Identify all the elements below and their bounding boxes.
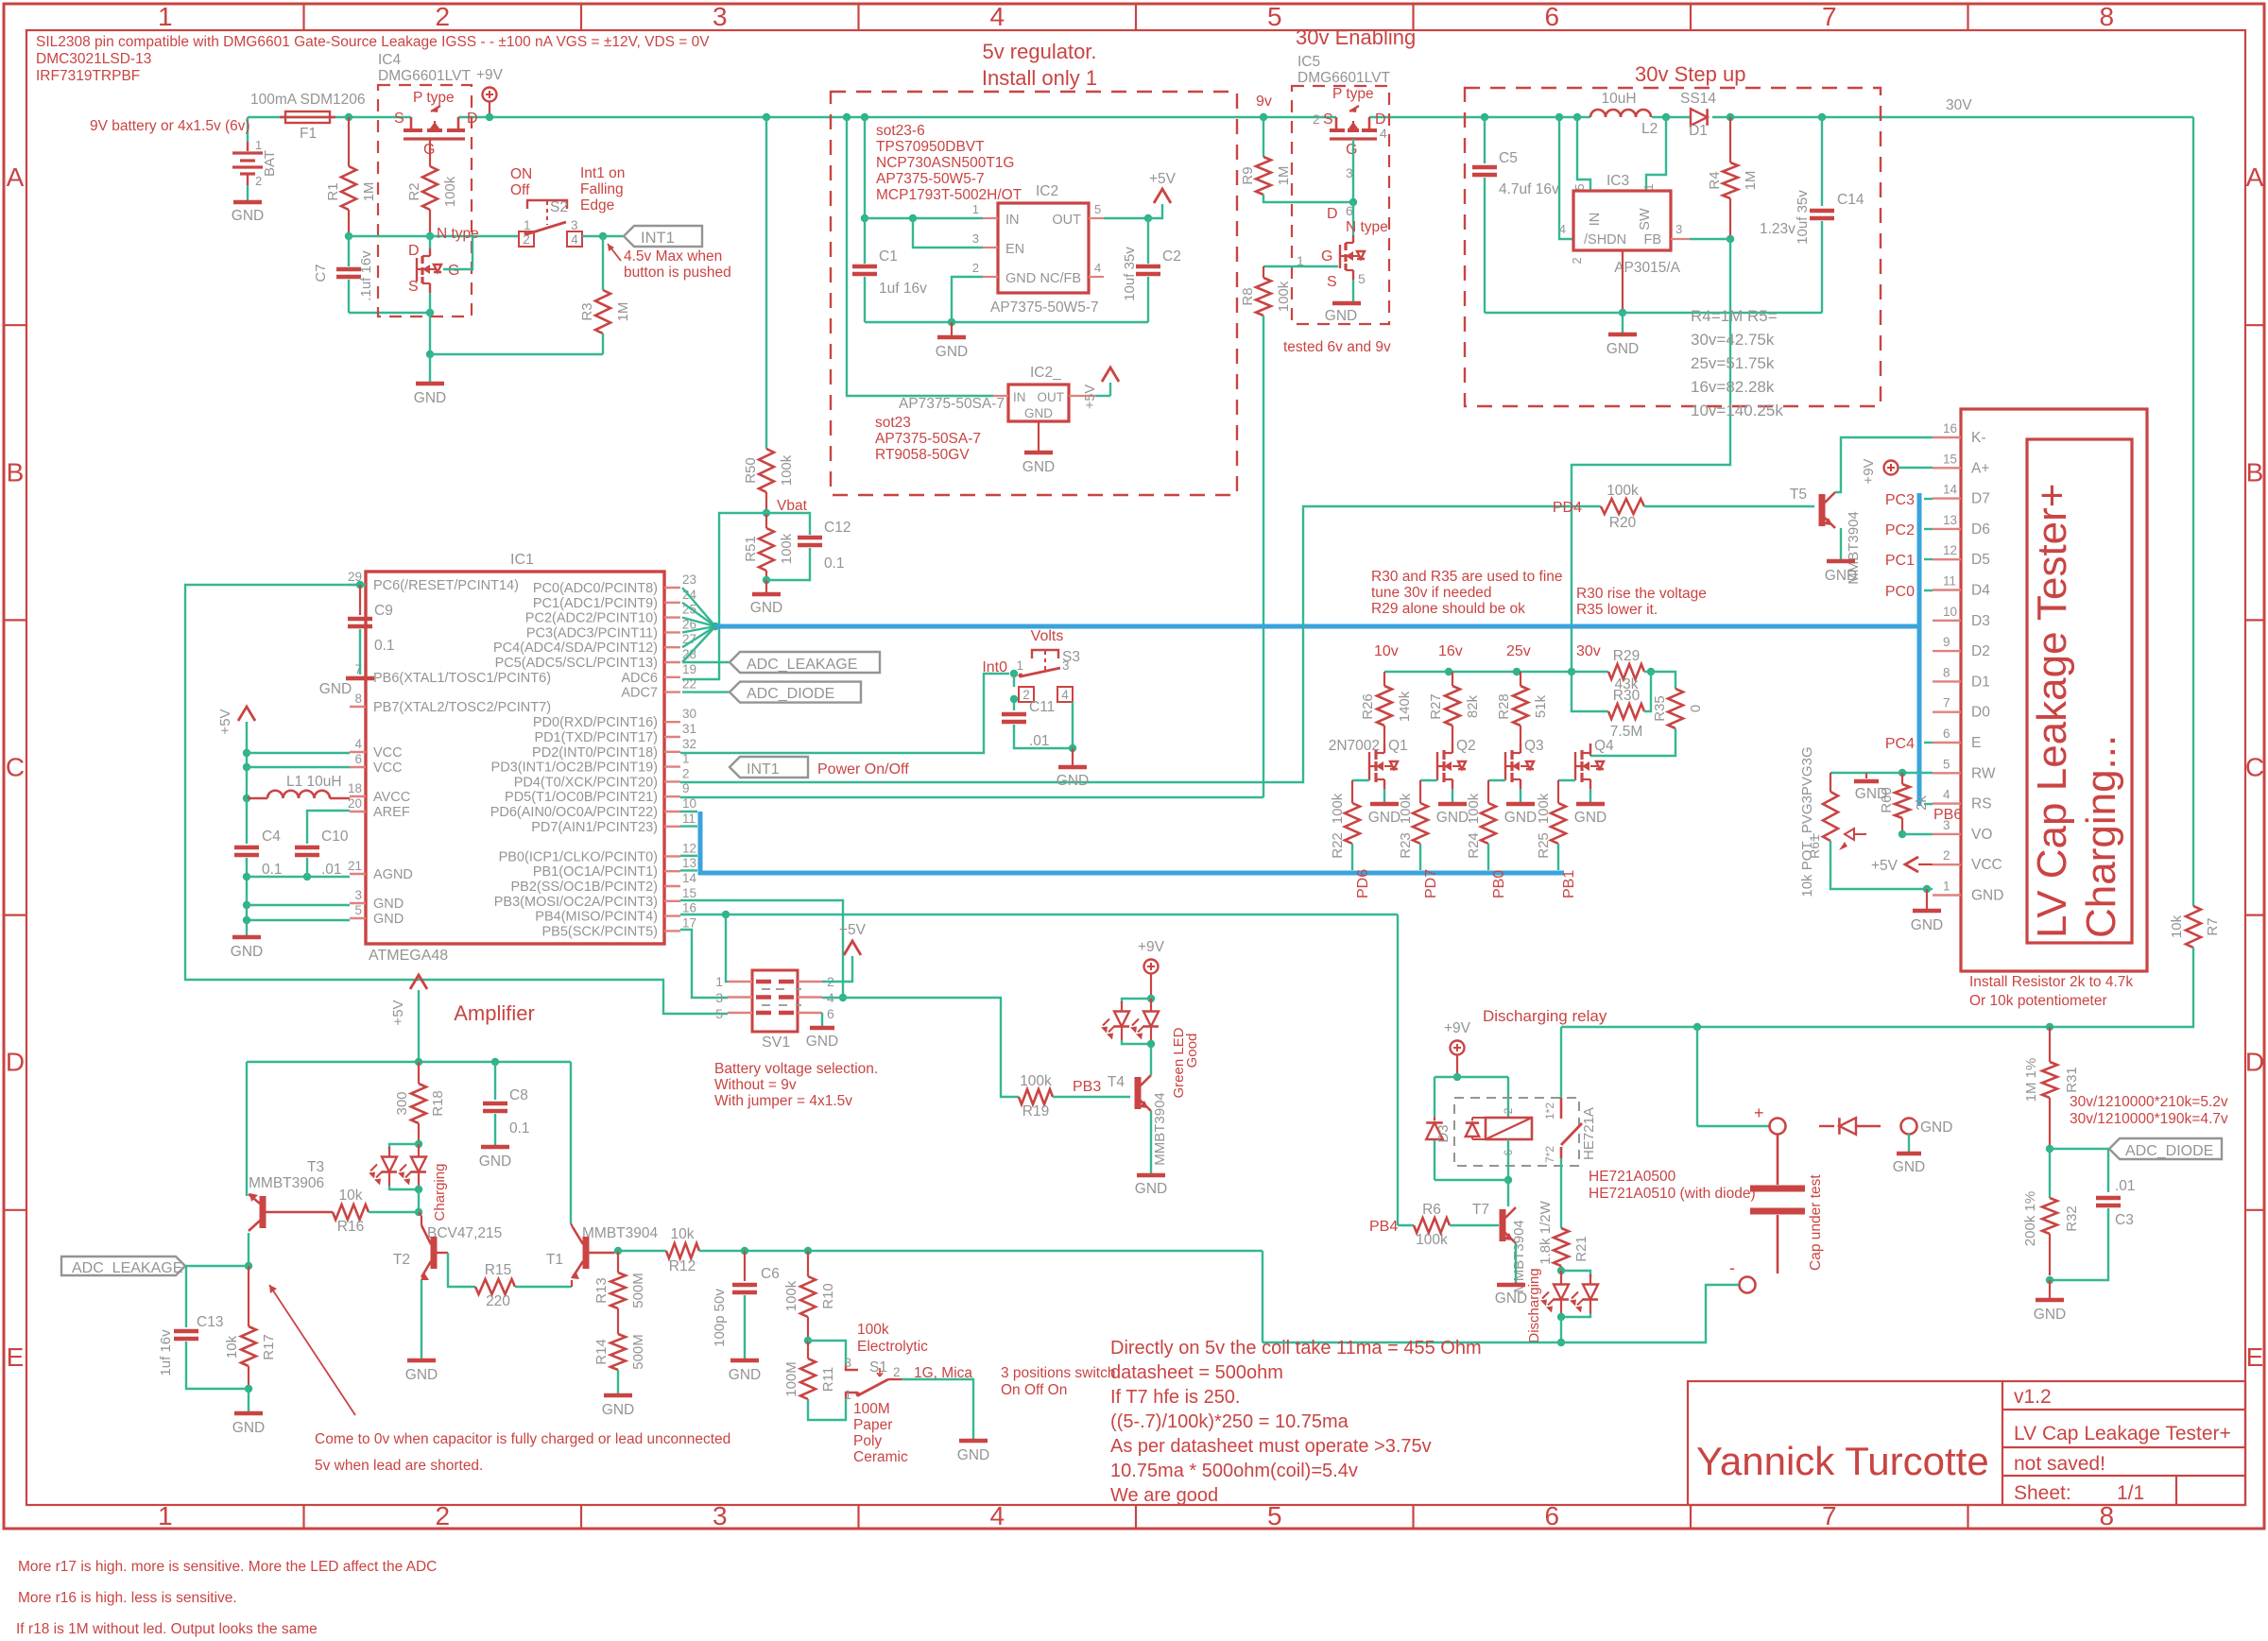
svg-text:G: G xyxy=(448,263,459,279)
transistor T5 MMBT3904 xyxy=(1819,494,1826,526)
bus vertical at LCD xyxy=(1917,493,1922,806)
resistor R27 82k xyxy=(1452,672,1453,686)
svg-text:5: 5 xyxy=(354,903,362,917)
ground IC5 xyxy=(1332,301,1361,306)
svg-text:PB7(XTAL2/TOSC2/PCINT7): PB7(XTAL2/TOSC2/PCINT7) xyxy=(373,700,551,715)
svg-text:100k: 100k xyxy=(783,1280,799,1311)
svg-text:GND: GND xyxy=(414,390,446,406)
wire C1 top xyxy=(864,218,866,264)
ground T5 xyxy=(1827,559,1855,564)
svg-text:IRF7319TRPBF: IRF7319TRPBF xyxy=(36,68,140,84)
ground below battery xyxy=(233,200,262,205)
node coil bottom xyxy=(1504,1176,1512,1184)
svg-text:1M: 1M xyxy=(615,302,631,322)
wire R6 to T7 base xyxy=(1450,1224,1499,1226)
lcd pins xyxy=(1933,436,1961,438)
svg-text:S: S xyxy=(1327,274,1337,290)
node discharge net to cap plus xyxy=(1693,1023,1701,1031)
svg-text:MMBT3904: MMBT3904 xyxy=(1152,1092,1168,1166)
svg-text:R28: R28 xyxy=(1496,693,1512,720)
svg-text:10.75ma * 500ohm(coil)=5.4v: 10.75ma * 500ohm(coil)=5.4v xyxy=(1110,1461,1358,1481)
svg-text:R3: R3 xyxy=(579,302,595,320)
wire R12 east xyxy=(699,1250,1263,1252)
svg-text:PC3: PC3 xyxy=(1885,492,1915,508)
svg-text:D2: D2 xyxy=(1971,643,1990,659)
node L2 right xyxy=(1662,113,1670,121)
svg-text:4: 4 xyxy=(571,232,578,247)
svg-text:R1: R1 xyxy=(325,182,341,200)
capacitor C8 0.1 xyxy=(494,1062,496,1100)
node PB4 to SV1 xyxy=(722,911,730,918)
wire T5 emitter to gnd xyxy=(1840,528,1842,559)
svg-text:1: 1 xyxy=(844,1388,851,1402)
svg-text:100k: 100k xyxy=(442,176,458,207)
capacitor C11 .01 xyxy=(1002,712,1026,717)
wire IN to IC2 xyxy=(865,217,983,219)
svg-text:v1.2: v1.2 xyxy=(2014,1386,2052,1408)
svg-text:-: - xyxy=(1729,1258,1735,1277)
ground C9 at XTAL pin xyxy=(346,676,374,681)
wire PD5 from pin9 xyxy=(680,796,1263,798)
svg-text:6: 6 xyxy=(1544,1501,1559,1530)
wire to R3 xyxy=(602,236,604,290)
wire bus stub D4 xyxy=(1924,590,1933,591)
svg-text:15: 15 xyxy=(1943,452,1957,466)
wire Q4 source to gnd xyxy=(1589,789,1591,802)
svg-text:PB0(ICP1/CLKO/PCINT0): PB0(ICP1/CLKO/PCINT0) xyxy=(499,849,658,864)
ic IC1 ATMEGA48 xyxy=(366,572,664,944)
resistor R60 2k xyxy=(1901,773,1903,784)
node charging led bottom xyxy=(389,1186,419,1189)
svg-text:On Off On: On Off On xyxy=(1001,1382,1067,1398)
svg-text:GND: GND xyxy=(319,681,352,697)
node VCC6 xyxy=(243,763,250,771)
wire battery to ground xyxy=(247,185,249,200)
node FB junction xyxy=(1727,235,1734,243)
svg-text:N type: N type xyxy=(1346,219,1388,235)
wire D1 out to R4 xyxy=(1729,117,1731,162)
svg-text:500M: 500M xyxy=(630,1273,646,1308)
svg-text:14: 14 xyxy=(682,871,697,885)
svg-text:RW: RW xyxy=(1971,765,1996,781)
svg-text:10: 10 xyxy=(682,796,696,811)
wire T7 emitter to gnd xyxy=(1515,1243,1517,1283)
diode D3 flyback xyxy=(1426,1122,1443,1139)
wire P gate to R2 xyxy=(429,139,431,166)
ground R17 xyxy=(234,1411,263,1416)
wire R15 to T1 emitter xyxy=(515,1286,572,1288)
node R60 bottom VO xyxy=(1899,830,1906,838)
svg-text:7*2: 7*2 xyxy=(1543,1146,1556,1163)
svg-text:30v=42.75k: 30v=42.75k xyxy=(1691,331,1775,349)
node R1 bottom xyxy=(345,232,352,240)
ic IC2_ alternative regulator xyxy=(1008,385,1069,421)
svg-text:PD3(INT1/OC2B/PCINT19): PD3(INT1/OC2B/PCINT19) xyxy=(491,761,658,776)
svg-text:10v: 10v xyxy=(1374,643,1399,659)
svg-text:R30: R30 xyxy=(1613,688,1641,704)
svg-text:GND: GND xyxy=(232,1420,265,1436)
svg-text:10uH: 10uH xyxy=(1601,91,1636,107)
svg-text:5: 5 xyxy=(1572,183,1587,190)
capacitor C1 1uf 16v xyxy=(852,265,877,269)
svg-text:1.8k 1/2W: 1.8k 1/2W xyxy=(1538,1200,1554,1264)
wire T2 collector up xyxy=(421,1216,422,1225)
wire R14 to gnd xyxy=(617,1370,619,1393)
svg-text:GND: GND xyxy=(1825,568,1857,584)
wire IC3 gnd pin down xyxy=(1622,250,1624,313)
bus ADC thick blue horizontal xyxy=(715,624,1921,629)
svg-text:ADC_DIODE: ADC_DIODE xyxy=(747,686,834,702)
svg-text:R7: R7 xyxy=(2205,917,2221,935)
resistor R13 500M xyxy=(617,1251,619,1273)
node R29 right xyxy=(1647,668,1655,675)
svg-text:L1 10uH: L1 10uH xyxy=(286,774,342,790)
svg-text:1: 1 xyxy=(1016,658,1023,673)
svg-text:12: 12 xyxy=(1943,543,1957,557)
svg-text:1: 1 xyxy=(1943,880,1950,894)
wire bus stub D6 xyxy=(1924,528,1933,530)
svg-text:B: B xyxy=(2246,457,2264,487)
wire R51 to gnd xyxy=(765,580,767,592)
wire to D3 xyxy=(1434,1077,1435,1117)
svg-text:GND: GND xyxy=(1911,917,1943,933)
svg-text:200k 1%: 200k 1% xyxy=(2022,1191,2038,1246)
svg-text:D: D xyxy=(467,111,478,127)
resistor R31 1M 1% xyxy=(2042,1062,2057,1098)
wire EN branch xyxy=(913,218,983,248)
svg-text:4: 4 xyxy=(1559,222,1566,236)
ground R14 xyxy=(604,1393,632,1398)
node EN branch xyxy=(909,214,917,222)
wire PB4 from pin16 xyxy=(680,914,1398,915)
svg-text:R11: R11 xyxy=(820,1367,836,1392)
svg-text:Discharging: Discharging xyxy=(1526,1268,1542,1342)
net flag INT1 at PD3 xyxy=(730,757,808,778)
svg-text:100M: 100M xyxy=(853,1401,890,1417)
svg-text:Sheet:: Sheet: xyxy=(2014,1482,2071,1504)
svg-text:Good: Good xyxy=(1184,1034,1200,1068)
svg-text:7: 7 xyxy=(1822,2,1837,31)
wire IC2_ gnd xyxy=(1038,421,1039,451)
svg-text:tested 6v and 9v: tested 6v and 9v xyxy=(1283,339,1391,355)
svg-text:not saved!: not saved! xyxy=(2014,1453,2105,1475)
wire C13 bottom xyxy=(186,1342,249,1389)
wire C10 bottom xyxy=(306,858,308,877)
svg-text:AREF: AREF xyxy=(373,805,410,820)
svg-text:C6: C6 xyxy=(761,1266,780,1282)
svg-text:21: 21 xyxy=(348,859,362,873)
svg-text:C7: C7 xyxy=(313,264,329,282)
svg-text:.01: .01 xyxy=(2115,1178,2136,1194)
svg-text:GND: GND xyxy=(1920,1120,1952,1136)
wire C12 bottom xyxy=(766,548,810,580)
svg-text:SV1: SV1 xyxy=(762,1034,790,1051)
wire step up gnd rail xyxy=(1485,312,1822,314)
svg-text:G: G xyxy=(1346,142,1357,158)
svg-text:0.1: 0.1 xyxy=(374,638,395,654)
wire VCC pin4 xyxy=(247,752,350,754)
wire gnd drop xyxy=(1926,889,1928,909)
svg-text:100mA SDM1206: 100mA SDM1206 xyxy=(250,92,366,108)
svg-text:AP7375-50W5-7: AP7375-50W5-7 xyxy=(990,299,1099,316)
svg-text:T3: T3 xyxy=(307,1159,324,1175)
wire PD4 net long xyxy=(680,506,1601,782)
svg-text:100k: 100k xyxy=(1330,793,1346,824)
wire gate resistor to bus xyxy=(1351,844,1353,870)
svg-text:button is pushed: button is pushed xyxy=(624,265,731,281)
wire 9V rail xyxy=(248,116,411,118)
node N source gnd xyxy=(426,350,434,358)
capacitor C6 100p 50v xyxy=(744,1251,746,1281)
svg-text:1: 1 xyxy=(715,974,723,989)
wire C5 top xyxy=(1484,117,1486,163)
svg-text:1M: 1M xyxy=(1276,166,1292,186)
svg-text:OUT: OUT xyxy=(1052,213,1081,228)
dashed box IC5 xyxy=(1292,86,1389,324)
ground R32 xyxy=(2036,1298,2064,1303)
svg-text:GND: GND xyxy=(405,1367,438,1383)
wire R1 to C7 xyxy=(348,236,350,266)
svg-text:Poly: Poly xyxy=(853,1433,882,1449)
svg-text:PD5(T1/OC0B/PCINT21): PD5(T1/OC0B/PCINT21) xyxy=(505,790,658,805)
svg-text:GND: GND xyxy=(1325,308,1357,324)
node S2 out xyxy=(599,232,607,240)
svg-text:R35 lower it.: R35 lower it. xyxy=(1576,602,1658,618)
wire pin4 down xyxy=(1072,702,1074,748)
power +5V IC1 xyxy=(238,707,255,721)
svg-text:9V battery or 4x1.5v (6v): 9V battery or 4x1.5v (6v) xyxy=(90,118,250,134)
svg-text:Paper: Paper xyxy=(853,1417,892,1433)
wire C2 bottom xyxy=(1147,277,1149,322)
svg-text:10uf 35v: 10uf 35v xyxy=(1795,190,1811,245)
wire R20 to T5 base xyxy=(1644,505,1814,507)
svg-text:Volts: Volts xyxy=(1031,628,1064,644)
wire rail to IC2_ in xyxy=(847,117,993,396)
node bus fan point xyxy=(712,623,719,630)
wire R3 bottom to gnd rail xyxy=(602,333,604,354)
svg-text:3: 3 xyxy=(1675,222,1682,236)
node led bottom xyxy=(1122,1040,1151,1044)
svg-text:16: 16 xyxy=(682,901,696,915)
svg-text:R21: R21 xyxy=(1573,1236,1589,1262)
wire T2 emitter to gnd xyxy=(421,1280,422,1359)
capacitor C5 4.7uf 16v xyxy=(1472,165,1497,170)
svg-text:S: S xyxy=(394,111,404,127)
capacitor C7 .1uf 16v xyxy=(336,267,361,272)
wire ADC7 to flag xyxy=(682,691,730,692)
ground under Q3 xyxy=(1506,802,1535,807)
svg-text:4: 4 xyxy=(1380,126,1387,141)
wire Q3 source to gnd xyxy=(1520,789,1521,802)
svg-text:R6: R6 xyxy=(1422,1202,1441,1218)
wire pin11 PD7 stub xyxy=(680,825,697,827)
node R10 tap xyxy=(804,1247,812,1255)
svg-text:R10: R10 xyxy=(820,1283,836,1309)
resistor R2 100k xyxy=(422,166,438,210)
node amplifier input xyxy=(245,1262,252,1270)
svg-text:0.1: 0.1 xyxy=(509,1120,530,1137)
ground at RW xyxy=(1865,773,1867,778)
svg-text:IC3: IC3 xyxy=(1606,173,1629,189)
bus fan wires from PC0-PC5 xyxy=(682,588,715,626)
battery BAT xyxy=(247,117,249,142)
svg-text:ON: ON xyxy=(510,166,532,182)
svg-text:R35: R35 xyxy=(1652,695,1668,722)
wire rail to IC2 IN xyxy=(864,117,866,218)
power +5V IC2_ xyxy=(1102,368,1119,382)
svg-text:GND: GND xyxy=(1024,406,1053,420)
svg-text:AVCC: AVCC xyxy=(373,790,410,805)
svg-text:GND: GND xyxy=(2034,1307,2066,1323)
svg-text:10uf 35v: 10uf 35v xyxy=(1122,247,1138,301)
node SV1 pin4 net xyxy=(839,994,847,1001)
resistor R20 100k xyxy=(1601,499,1644,514)
ground IC4 xyxy=(416,382,444,386)
wire R7 bottom to discharge net xyxy=(1561,948,2193,1027)
node IC2 in xyxy=(861,214,868,222)
svg-text:E: E xyxy=(2246,1342,2264,1372)
svg-text:D3: D3 xyxy=(1971,613,1990,629)
node D1 out xyxy=(1727,113,1734,121)
svg-text:PB5(SCK/PCINT5): PB5(SCK/PCINT5) xyxy=(542,924,658,939)
wire IC2 out xyxy=(1104,217,1148,219)
svg-text:0.1: 0.1 xyxy=(262,862,283,878)
node R17 bottom xyxy=(245,1385,252,1393)
power +9V green led xyxy=(1144,960,1159,974)
svg-text:AGND: AGND xyxy=(373,867,413,882)
node VCC4 xyxy=(243,749,250,757)
resistor R11 100M xyxy=(807,1341,809,1359)
wire IC5 N source to gnd xyxy=(1352,280,1354,301)
wire to gnd R17 xyxy=(248,1389,249,1411)
ic IC1 left pins xyxy=(350,584,366,586)
node gnd rail IC2 xyxy=(948,318,955,326)
node gnd pin3 xyxy=(243,901,250,909)
svg-text:HE721A0500: HE721A0500 xyxy=(1589,1169,1676,1185)
svg-text:4: 4 xyxy=(1094,261,1101,275)
svg-text:IN: IN xyxy=(1013,390,1026,404)
svg-text:+9V: +9V xyxy=(1138,939,1165,955)
svg-text:datasheet = 500ohm: datasheet = 500ohm xyxy=(1110,1362,1283,1383)
relay contact xyxy=(1560,1098,1563,1119)
svg-text:Int0: Int0 xyxy=(982,659,1007,675)
svg-text:5: 5 xyxy=(1267,1501,1282,1530)
svg-text:1G, Mica: 1G, Mica xyxy=(914,1365,972,1381)
svg-text:GND: GND xyxy=(232,208,264,224)
svg-text:Q3: Q3 xyxy=(1524,738,1544,754)
wire C3 top xyxy=(2107,1149,2109,1192)
wire R35 bottom to Q4 drain xyxy=(1590,728,1675,756)
wire gnd stub IC3 xyxy=(1622,313,1624,333)
svg-text:L2: L2 xyxy=(1641,121,1658,137)
svg-text:25v: 25v xyxy=(1506,643,1531,659)
svg-text:MCP1793T-5002H/OT: MCP1793T-5002H/OT xyxy=(876,187,1022,203)
svg-text:5v when lead are shorted.: 5v when lead are shorted. xyxy=(315,1458,483,1474)
svg-text:11: 11 xyxy=(1943,574,1956,589)
svg-text:1: 1 xyxy=(255,138,262,152)
svg-text:IC2: IC2 xyxy=(1036,183,1058,199)
svg-text:6: 6 xyxy=(354,752,362,766)
svg-text:1M: 1M xyxy=(361,182,377,202)
svg-text:R20: R20 xyxy=(1609,515,1637,531)
svg-text:Edge: Edge xyxy=(580,197,614,214)
wire C14 bottom xyxy=(1821,221,1823,313)
svg-text:+5V: +5V xyxy=(390,1000,406,1025)
svg-text:19: 19 xyxy=(682,662,696,676)
svg-text:D: D xyxy=(2245,1048,2264,1077)
svg-text:+9V: +9V xyxy=(1861,458,1877,484)
svg-text:6: 6 xyxy=(1943,726,1950,741)
wire to plus circle xyxy=(1697,1125,1769,1127)
svg-text:R22: R22 xyxy=(1330,832,1346,859)
wire L2 to SW pin xyxy=(1646,117,1666,191)
svg-text:D6: D6 xyxy=(1971,521,1990,538)
svg-text:R50: R50 xyxy=(743,457,759,484)
svg-text:D4: D4 xyxy=(1971,583,1990,599)
svg-text:R24: R24 xyxy=(1466,832,1482,859)
resistor R7 10k xyxy=(2186,906,2201,948)
svg-text:C14: C14 xyxy=(1837,192,1864,208)
net flag ADC_DIODE xyxy=(730,682,861,703)
resistor R8 100k gate series xyxy=(1263,265,1338,267)
resistor R50 100k xyxy=(759,449,774,492)
svg-text:PC3(ADC3/PCINT11): PC3(ADC3/PCINT11) xyxy=(526,625,658,641)
svg-text:1/1: 1/1 xyxy=(2117,1482,2144,1504)
node R32 bottom xyxy=(2046,1276,2053,1284)
svg-text:S: S xyxy=(408,279,419,295)
svg-text:Off: Off xyxy=(510,182,530,198)
node discharge return xyxy=(1557,1339,1565,1346)
wire minus to discharge return xyxy=(1561,1285,1739,1342)
wire flag to node xyxy=(185,1265,249,1267)
svg-text:T2: T2 xyxy=(393,1252,410,1268)
wire VO row xyxy=(1902,833,1933,835)
wire T5 collector to K- xyxy=(1835,437,1933,492)
wire Vbat to C12 xyxy=(766,513,810,535)
svg-text:GND: GND xyxy=(936,344,968,360)
wire SV1 pin4 stub xyxy=(822,997,843,999)
svg-text:3 positions switch: 3 positions switch xyxy=(1001,1365,1115,1381)
svg-text:IC4: IC4 xyxy=(378,52,402,68)
svg-text:10: 10 xyxy=(1943,605,1957,619)
svg-text:14: 14 xyxy=(1943,483,1958,497)
svg-text:GND: GND xyxy=(957,1447,989,1463)
svg-text:Without = 9v: Without = 9v xyxy=(714,1077,797,1093)
svg-text:Vbat: Vbat xyxy=(777,498,808,514)
ground under Q2 xyxy=(1438,802,1467,807)
wire RW gnd net xyxy=(1830,772,1933,774)
svg-text:ADC6: ADC6 xyxy=(621,671,658,686)
svg-text:PC2: PC2 xyxy=(1885,522,1915,538)
resistor R22 100k gate xyxy=(1352,779,1369,781)
net flag ADC_LEAKAGE left xyxy=(61,1256,185,1275)
svg-text:.1uf 16v: .1uf 16v xyxy=(358,250,374,301)
svg-text:C: C xyxy=(2245,753,2264,782)
svg-text:INT1: INT1 xyxy=(641,230,675,247)
svg-text:23: 23 xyxy=(682,573,696,587)
power +9V relay xyxy=(1451,1041,1465,1055)
svg-text:NC/FB: NC/FB xyxy=(1040,271,1082,286)
svg-text:3: 3 xyxy=(354,888,362,902)
node relay supply xyxy=(1453,1073,1461,1081)
wire SV1 pin6 to gnd xyxy=(821,1013,823,1026)
node IC5 gate divider xyxy=(1349,198,1357,206)
svg-text:PB1(OC1A/PCINT1): PB1(OC1A/PCINT1) xyxy=(533,864,658,880)
svg-text:4.7uf 16v: 4.7uf 16v xyxy=(1499,181,1559,197)
svg-text:PB3: PB3 xyxy=(1073,1079,1101,1095)
wire led bottom to discharge return xyxy=(1560,1317,1562,1342)
wire S3 gnd stub xyxy=(1072,748,1074,765)
